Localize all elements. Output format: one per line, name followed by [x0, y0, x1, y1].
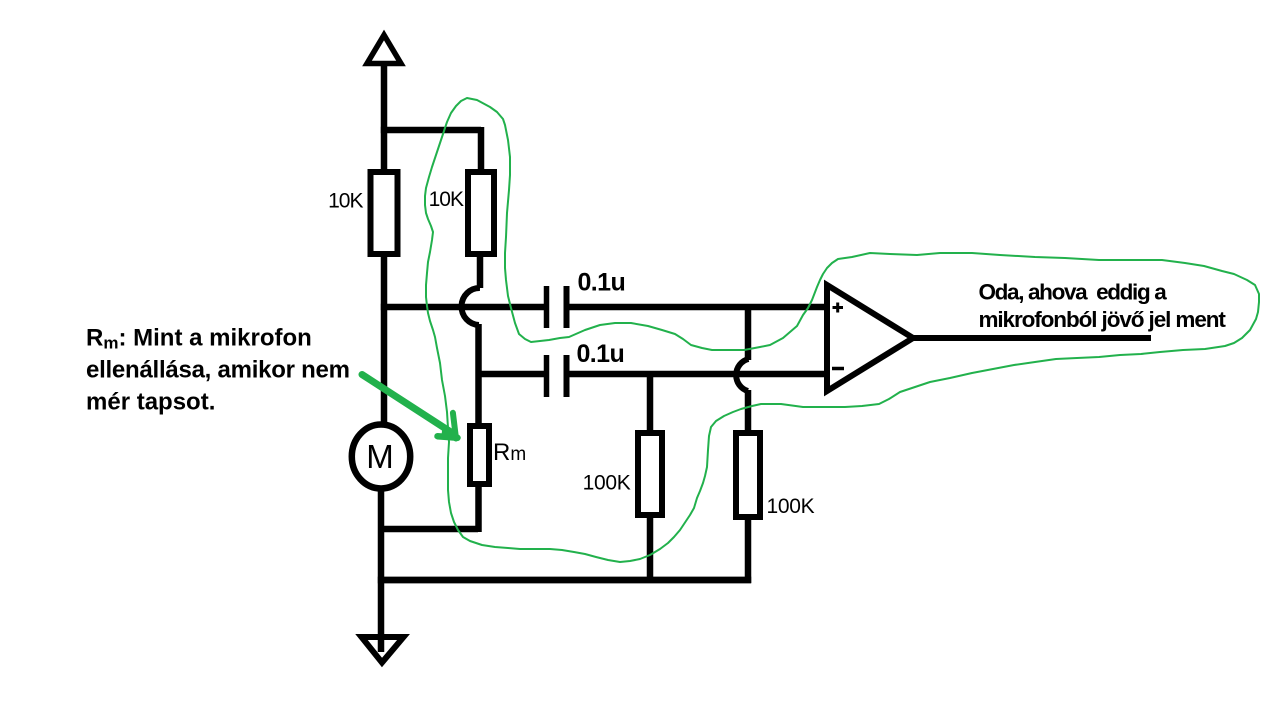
- wire hop over node B: [736, 359, 748, 391]
- svg-text:0.1u: 0.1u: [577, 340, 625, 368]
- svg-text:ellenállása, amikor nem: ellenállása, amikor nem: [86, 357, 350, 384]
- svg-text:M: M: [366, 438, 394, 475]
- wire mic bottom to ground: [378, 486, 385, 652]
- resistor R3 100K: [638, 433, 662, 515]
- svg-text:10K: 10K: [429, 188, 464, 211]
- op-amp U1 plus input marker: [833, 303, 844, 313]
- capacitor C1 plate right: [564, 286, 570, 328]
- svg-text:mér tapsot.: mér tapsot.: [86, 389, 215, 416]
- svg-text:10K: 10K: [328, 190, 363, 213]
- wire C1 to op-amp plus input: [569, 304, 826, 311]
- wire op-amp output: [910, 335, 1151, 341]
- wire C2 to op-amp minus input: [569, 371, 826, 378]
- power symbol VCC: [367, 35, 401, 64]
- capacitor C2 plate right: [564, 355, 570, 397]
- resistor R1 10K: [371, 172, 398, 254]
- wire R4 top lead: [745, 390, 752, 433]
- wire R3 bottom lead: [647, 515, 654, 583]
- wire mic to Rm bottom: [378, 526, 478, 533]
- op-amp U1: [827, 285, 913, 391]
- wire Rm top lead: [475, 324, 482, 427]
- svg-text:Rm: Rm: [493, 439, 526, 466]
- resistor Rm: [470, 426, 489, 484]
- annotation green arrow to Rm: [362, 375, 460, 439]
- svg-text:100K: 100K: [583, 472, 631, 495]
- capacitor C2 plate left: [544, 355, 550, 397]
- wire R2 bottom lead: [477, 254, 484, 288]
- wire ground rail horizontal: [378, 577, 751, 584]
- svg-text:Oda, ahova eddig a: Oda, ahova eddig a: [979, 280, 1168, 305]
- wire plus-rail drop from node A: [745, 304, 752, 360]
- wire node B horizontal left segment: [478, 371, 544, 378]
- resistor R2 10K: [468, 172, 494, 254]
- wire R3 top lead: [647, 371, 654, 433]
- wire R1 bottom lead to mic: [381, 254, 388, 427]
- microphone M1: [352, 425, 410, 489]
- wire hop over node A: [462, 288, 480, 325]
- svg-text:Rm: Mint a mikrofon: Rm: Mint a mikrofon: [86, 325, 312, 353]
- svg-text:0.1u: 0.1u: [578, 269, 626, 297]
- op-amp U1 minus input marker: [832, 367, 844, 371]
- svg-text:100K: 100K: [767, 495, 815, 518]
- svg-text:mikrofonból jövő jel ment: mikrofonból jövő jel ment: [979, 307, 1227, 332]
- ground symbol: [362, 637, 404, 663]
- wire node A horizontal left segment: [381, 304, 544, 311]
- wire VCC to top rail: [381, 62, 388, 172]
- wire Rm bottom lead: [475, 484, 482, 532]
- wire R2 top lead: [478, 127, 485, 172]
- resistor R4 100K: [736, 433, 760, 517]
- capacitor C1 plate left: [544, 286, 550, 328]
- wire R4 bottom lead: [745, 517, 752, 583]
- wire top rail horizontal: [381, 127, 481, 134]
- annotation green loop: [425, 98, 1259, 562]
